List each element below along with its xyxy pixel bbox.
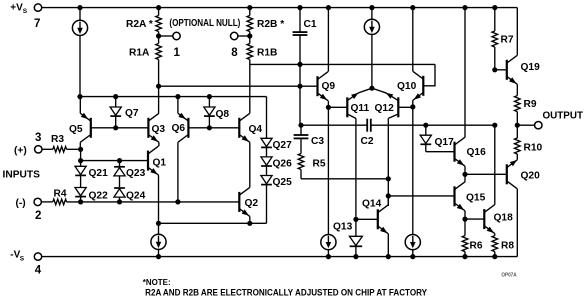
svg-text:R5: R5 [313, 159, 326, 170]
svg-text:Q12: Q12 [375, 103, 395, 114]
svg-text:Q3: Q3 [152, 124, 166, 135]
svg-text:3: 3 [35, 132, 41, 144]
svg-text:Q20: Q20 [521, 171, 541, 182]
svg-text:OUTPUT: OUTPUT [543, 111, 584, 122]
svg-text:Q26: Q26 [273, 159, 293, 170]
svg-text:8: 8 [231, 47, 238, 59]
svg-text:Q1: Q1 [153, 158, 167, 169]
svg-text:C3: C3 [311, 136, 324, 147]
svg-text:Q21: Q21 [89, 168, 109, 179]
svg-text:R4: R4 [54, 189, 67, 200]
svg-text:Q4: Q4 [249, 124, 263, 135]
svg-text:Q8: Q8 [216, 109, 230, 120]
svg-text:1: 1 [174, 47, 181, 59]
svg-text:Q14: Q14 [362, 199, 382, 210]
svg-text:4: 4 [35, 264, 42, 276]
svg-text:2: 2 [35, 210, 41, 222]
svg-text:Q23: Q23 [126, 168, 146, 179]
svg-text:Q19: Q19 [521, 62, 541, 73]
svg-text:(OPTIONAL NULL): (OPTIONAL NULL) [169, 18, 240, 29]
svg-text:Q16: Q16 [467, 147, 487, 158]
svg-text:Q11: Q11 [351, 103, 370, 114]
svg-text:Q15: Q15 [466, 193, 486, 204]
svg-text:S: S [20, 255, 25, 262]
svg-text:C2: C2 [361, 136, 374, 147]
svg-text:R9: R9 [524, 99, 537, 110]
svg-text:Q13: Q13 [333, 222, 353, 233]
svg-text:Q9: Q9 [322, 81, 336, 92]
svg-text:+V: +V [10, 3, 23, 14]
svg-text:(-): (-) [16, 198, 26, 209]
svg-text:R2A *: R2A * [126, 19, 153, 30]
svg-text:R2A AND R2B ARE ELECTRONICALLY: R2A AND R2B ARE ELECTRONICALLY ADJUSTED … [145, 287, 427, 297]
svg-text:R8: R8 [501, 241, 514, 252]
svg-text:Q25: Q25 [273, 177, 293, 188]
svg-text:Q24: Q24 [126, 190, 146, 201]
svg-text:R3: R3 [51, 134, 64, 145]
svg-text:*NOTE:: *NOTE: [143, 277, 171, 287]
svg-text:Q22: Q22 [89, 190, 109, 201]
svg-text:R2B *: R2B * [257, 19, 284, 30]
svg-text:OP07A: OP07A [501, 272, 516, 278]
svg-text:Q7: Q7 [125, 108, 139, 119]
svg-text:Q2: Q2 [245, 198, 259, 209]
svg-text:R1A: R1A [129, 48, 150, 59]
svg-text:Q18: Q18 [494, 213, 514, 224]
svg-text:Q5: Q5 [69, 124, 83, 135]
svg-text:R6: R6 [470, 241, 483, 252]
svg-text:C1: C1 [304, 19, 317, 30]
svg-text:R10: R10 [524, 143, 543, 154]
svg-text:Q10: Q10 [397, 81, 417, 92]
svg-text:7: 7 [34, 18, 40, 30]
svg-text:R7: R7 [501, 35, 514, 46]
svg-text:S: S [23, 8, 28, 15]
svg-text:Q6: Q6 [172, 123, 186, 134]
svg-text:(+): (+) [14, 146, 27, 157]
svg-text:Q17: Q17 [435, 137, 455, 148]
svg-text:Q27: Q27 [273, 140, 293, 151]
svg-text:R1B: R1B [257, 48, 277, 59]
svg-text:INPUTS: INPUTS [3, 170, 41, 181]
